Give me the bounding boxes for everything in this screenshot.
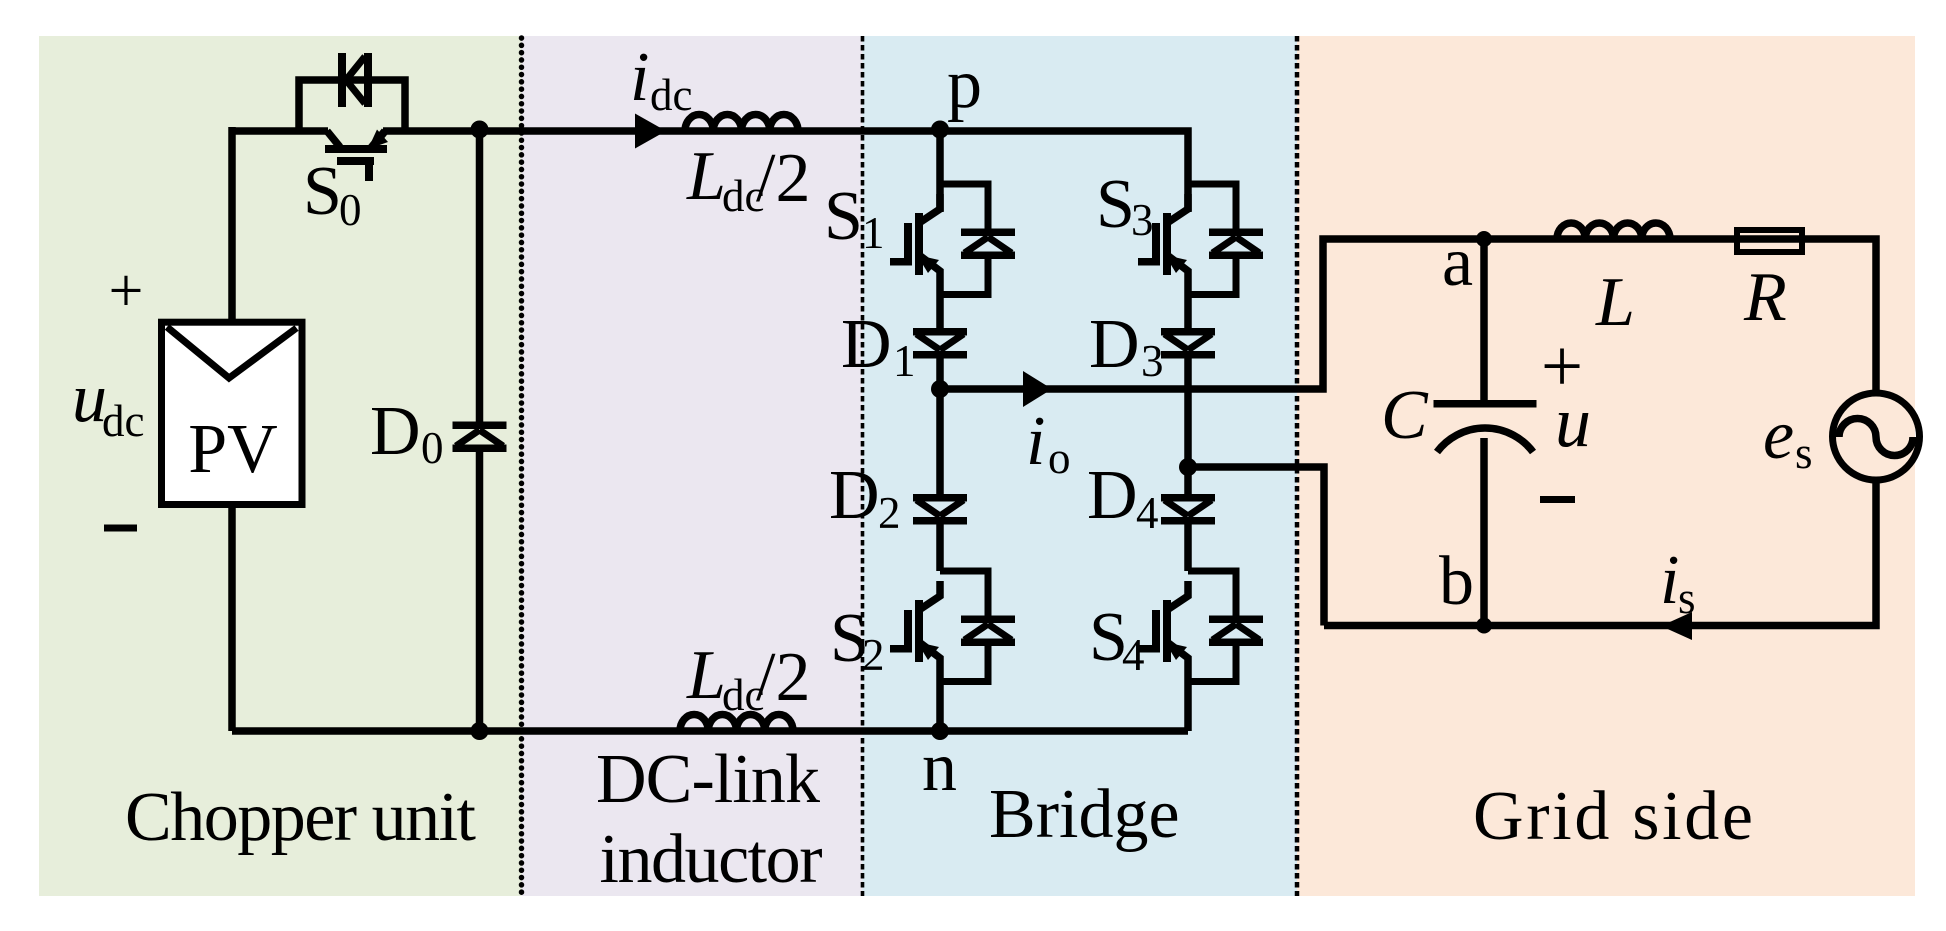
svg-text:D: D	[1087, 457, 1138, 534]
svg-text:/2: /2	[756, 639, 810, 716]
svg-text:D: D	[829, 457, 880, 534]
svg-text:0: 0	[339, 185, 362, 235]
svg-text:s: s	[1795, 428, 1813, 478]
svg-text:a: a	[1442, 224, 1473, 301]
svg-text:o: o	[1048, 433, 1071, 483]
svg-text:Grid side: Grid side	[1473, 778, 1753, 855]
svg-text:dc: dc	[102, 396, 144, 446]
svg-text:u: u	[1555, 382, 1591, 462]
svg-text:S: S	[303, 153, 342, 230]
svg-text:D: D	[1089, 306, 1140, 383]
svg-text:PV: PV	[188, 411, 277, 488]
svg-text:1: 1	[893, 336, 916, 386]
svg-text:3: 3	[1131, 195, 1154, 245]
svg-text:s: s	[1678, 573, 1696, 623]
svg-text:R: R	[1743, 259, 1787, 336]
svg-text:2: 2	[862, 630, 885, 680]
svg-text:1: 1	[862, 208, 885, 258]
svg-text:DC-link: DC-link	[596, 741, 820, 818]
svg-text:n: n	[922, 729, 957, 806]
svg-text:3: 3	[1141, 336, 1164, 386]
svg-text:0: 0	[421, 423, 444, 473]
svg-text:+: +	[109, 257, 144, 325]
svg-text:e: e	[1763, 397, 1794, 474]
svg-text:4: 4	[1136, 488, 1159, 538]
svg-text:b: b	[1439, 543, 1474, 620]
svg-text:dc: dc	[650, 70, 692, 120]
svg-text:L: L	[1595, 264, 1635, 341]
svg-text:L: L	[686, 138, 726, 215]
svg-text:D: D	[370, 393, 421, 470]
svg-text:i: i	[630, 39, 649, 116]
svg-text:S: S	[1096, 166, 1135, 243]
svg-text:C: C	[1381, 377, 1429, 454]
svg-text:2: 2	[878, 488, 901, 538]
svg-text:D: D	[841, 306, 892, 383]
svg-text:p: p	[947, 46, 982, 123]
svg-text:L: L	[686, 637, 726, 714]
svg-text:i: i	[1026, 403, 1045, 480]
svg-text:Chopper unit: Chopper unit	[125, 779, 477, 856]
svg-text:Bridge: Bridge	[989, 776, 1180, 853]
svg-text:4: 4	[1122, 630, 1145, 680]
svg-text:i: i	[1660, 542, 1679, 619]
svg-text:/2: /2	[756, 140, 810, 217]
svg-text:S: S	[824, 178, 863, 255]
svg-text:inductor: inductor	[600, 821, 823, 898]
